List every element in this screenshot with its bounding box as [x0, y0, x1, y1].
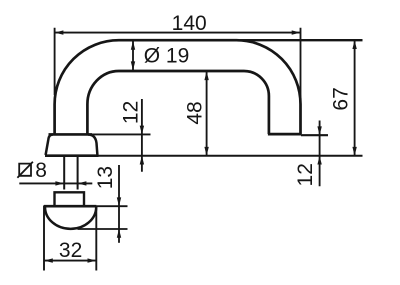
rose bottom bold segment — [45, 154, 99, 157]
dim 48 line — [206, 71, 208, 155]
block top bold line — [44, 205, 97, 208]
square symbol — [17, 162, 33, 178]
dim diam 8 leader — [19, 182, 92, 184]
dim 12 right line — [319, 121, 321, 187]
rose top bold line — [49, 133, 93, 136]
dome curve — [45, 207, 96, 229]
svg-text:Ø 19: Ø 19 — [144, 45, 190, 68]
ext 12 left — [90, 133, 151, 135]
ext 13 top — [97, 205, 128, 207]
dim diam 19 line — [132, 41, 134, 70]
ext 12 right — [301, 134, 328, 136]
neck rectangle in bottom view — [55, 192, 85, 205]
handle outline inner — [87, 71, 269, 135]
svg-text:48: 48 — [183, 101, 206, 124]
svg-text:67: 67 — [330, 87, 353, 110]
dim 67 line — [354, 40, 356, 156]
ext 13 bottom — [78, 228, 128, 230]
ext lines 140 — [55, 28, 301, 104]
svg-text:12: 12 — [294, 163, 317, 186]
svg-text:140: 140 — [172, 12, 207, 35]
handle outline outer — [55, 40, 301, 135]
block sides / 32 extension lines — [44, 206, 96, 271]
handle end cap — [268, 133, 302, 136]
svg-text:8: 8 — [35, 159, 47, 182]
svg-text:32: 32 — [59, 239, 82, 262]
svg-text:13: 13 — [94, 166, 117, 189]
long reference line bottom of rose — [99, 155, 363, 157]
spindle — [64, 156, 77, 190]
ext line 67 top — [240, 39, 363, 41]
dim 32 line — [44, 260, 96, 262]
rose body — [46, 135, 98, 156]
dimension 140 line — [55, 32, 301, 34]
dim 13 line — [118, 165, 120, 243]
svg-text:12: 12 — [119, 101, 142, 124]
dim 12 left line — [141, 99, 143, 172]
